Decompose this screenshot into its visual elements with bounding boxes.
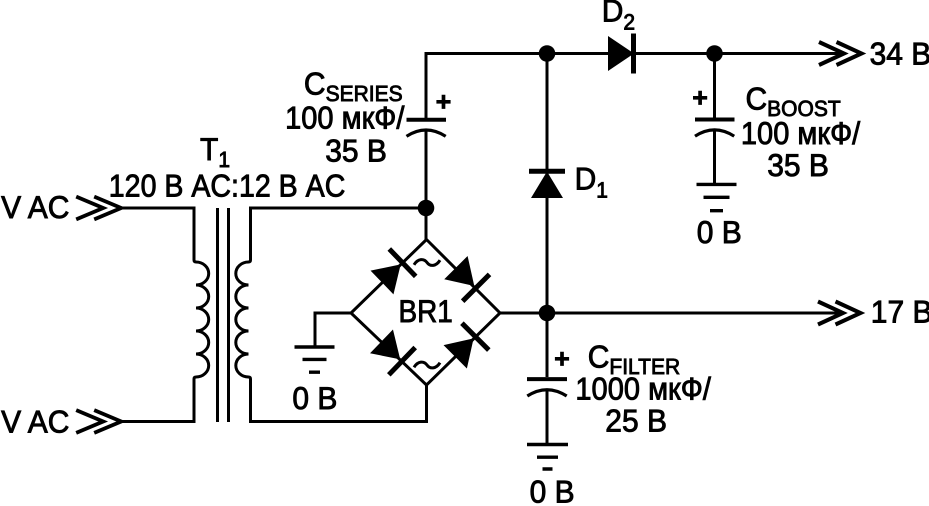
svg-text:17 В: 17 В: [871, 295, 929, 330]
svg-text:V AC: V AC: [1, 405, 69, 440]
svg-text:0 В: 0 В: [697, 216, 742, 251]
svg-text:35 В: 35 В: [767, 149, 829, 184]
svg-text:120 В AC:12 В AC: 120 В AC:12 В AC: [109, 169, 346, 204]
svg-text:100 мкФ/: 100 мкФ/: [741, 117, 861, 152]
svg-text:25 В: 25 В: [605, 404, 667, 439]
svg-text:BR1: BR1: [399, 295, 453, 330]
svg-text:35 В: 35 В: [325, 134, 387, 169]
svg-text:1000 мкФ/: 1000 мкФ/: [575, 372, 711, 407]
svg-text:0 В: 0 В: [292, 382, 337, 417]
svg-text:34 В: 34 В: [870, 37, 929, 72]
svg-text:V AC: V AC: [1, 191, 69, 226]
svg-text:100 мкФ/: 100 мкФ/: [285, 101, 405, 136]
svg-text:0 В: 0 В: [530, 475, 575, 506]
